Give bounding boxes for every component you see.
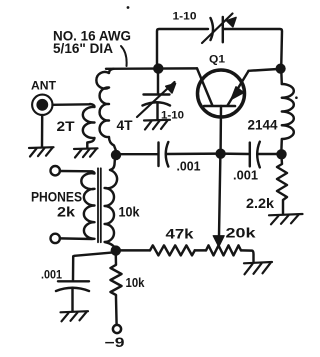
speck artifact	[127, 6, 130, 9]
wire bottom rail to R2	[116, 249, 150, 251]
resistor R2 47k	[150, 245, 195, 255]
svg-text:20k: 20k	[226, 226, 257, 241]
speck artifact right	[295, 96, 298, 99]
svg-text:1-10: 1-10	[173, 11, 197, 23]
capacitor C4 curved plate	[257, 142, 260, 168]
capacitor C5 .001 flat plate	[58, 280, 89, 282]
svg-text:2k: 2k	[57, 205, 75, 220]
wire top left segment	[157, 29, 208, 69]
capacitor C2 arrow	[137, 82, 176, 117]
transformer T1 core	[98, 168, 101, 242]
resistor R3 20k body	[206, 245, 241, 255]
wire ANT to L1	[53, 103, 91, 106]
wire Q1 emitter to right rail	[249, 69, 279, 71]
ground under R1	[269, 214, 303, 224]
wire rail to choke	[280, 69, 283, 85]
wire Q1 base lead	[219, 106, 222, 150]
svg-text:47k: 47k	[166, 227, 195, 242]
svg-text:−9: −9	[105, 335, 125, 350]
svg-text:.001: .001	[41, 268, 62, 282]
coil L3 2144 choke	[281, 84, 293, 150]
svg-text:2T: 2T	[57, 119, 76, 134]
terminal -9	[113, 325, 121, 333]
resistor R1 2.2k	[277, 154, 287, 214]
svg-text:10k: 10k	[119, 205, 140, 220]
node tank top	[153, 63, 163, 73]
wire C4 to emitter rail	[258, 153, 281, 155]
capacitor C5 curved plate	[56, 288, 89, 291]
resistor R4 10k vertical	[111, 250, 122, 324]
wire top right segment	[224, 29, 283, 69]
svg-text:5/16" DIA: 5/16" DIA	[53, 41, 113, 56]
capacitor C1 1-10 feedback trimmer curved plate	[211, 18, 214, 40]
svg-text:Q1: Q1	[209, 54, 225, 66]
transformer T1 2k winding	[60, 171, 95, 239]
transformer T1 10k winding	[105, 154, 117, 250]
leader line to coil L2	[121, 46, 127, 66]
node bottom rail	[111, 245, 121, 255]
svg-text:10k: 10k	[126, 275, 146, 290]
capacitor C2 bottom lead	[156, 104, 158, 120]
capacitor C2 curved plate	[143, 102, 171, 105]
wire R3 to ground	[241, 250, 254, 261]
capacitor C3 .001 flat plate	[157, 143, 159, 167]
node emitter rail bottom	[276, 149, 286, 159]
ground under ANT	[29, 147, 54, 156]
svg-text:PHONES: PHONES	[31, 190, 82, 206]
wire tank top horizontal	[106, 67, 197, 70]
capacitor C2 1-10 main tuning lead	[157, 69, 159, 95]
svg-text:4T: 4T	[117, 118, 134, 133]
svg-text:ANT: ANT	[31, 79, 57, 93]
transistor Q1	[197, 68, 249, 117]
svg-text:.001: .001	[177, 159, 201, 174]
svg-text:2.2k: 2.2k	[246, 196, 274, 211]
node base	[215, 149, 225, 159]
wire base node to C4	[221, 152, 250, 155]
ground under C5	[61, 311, 89, 321]
capacitor C4 .001 flat plate	[249, 143, 251, 167]
svg-text:.001: .001	[233, 168, 258, 183]
capacitor C5 bottom lead	[71, 289, 73, 312]
wire ANT ground lead	[41, 115, 44, 147]
capacitor C2 flat plate	[144, 93, 170, 95]
ground under L1	[74, 148, 98, 157]
ground under C2	[144, 120, 170, 130]
wire R2 to R3	[195, 249, 206, 251]
terminal phone bottom	[51, 234, 60, 243]
coil L1 2T antenna	[83, 104, 95, 148]
capacitor C3 curved plate	[166, 142, 169, 167]
terminal ANT jack	[32, 95, 52, 115]
wire C3 to base node	[167, 152, 221, 155]
capacitor C1 flat plate	[222, 17, 224, 42]
svg-text:2144: 2144	[248, 118, 278, 133]
node emitter rail top	[276, 64, 286, 74]
node tank bottom	[111, 150, 121, 160]
wire tank bottom to C3	[116, 153, 158, 155]
coil L2 4T tank	[96, 69, 115, 150]
ground under R3	[244, 262, 272, 274]
terminal phone top	[51, 166, 60, 175]
resistor R3 wiper	[213, 154, 224, 247]
capacitor C1 arrow	[202, 14, 236, 44]
wire bottom rail to C5	[73, 252, 116, 280]
